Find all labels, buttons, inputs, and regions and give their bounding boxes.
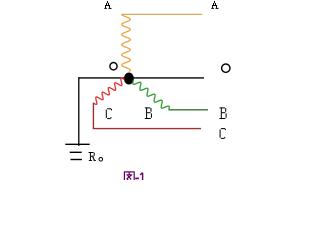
- caption 图-1: [124, 172, 142, 183]
- label C left: [106, 108, 112, 119]
- label B right: [220, 107, 227, 119]
- terminal circle left: [110, 62, 117, 69]
- red vertical wire: [92, 103, 94, 129]
- wire A-phase (orange, top): [122, 13, 202, 15]
- phase label A left: [104, 1, 111, 9]
- ground bar 2: [70, 151, 82, 153]
- bus wire (black horizontal): [78, 77, 204, 79]
- ground bar 1: [65, 143, 89, 145]
- label C right: [220, 128, 226, 139]
- coil winding B (green): [133, 80, 170, 110]
- coil winding A (orange): [122, 14, 131, 71]
- label B left: [145, 107, 152, 119]
- ground bar 3: [71, 159, 83, 161]
- red bottom wire (phase C): [93, 128, 201, 130]
- green wire (phase B): [169, 109, 209, 111]
- node junction (neutral point): [124, 73, 134, 85]
- phase label A right: [211, 1, 218, 9]
- left vertical wire to ground: [78, 77, 80, 146]
- R terminal small circle: [99, 158, 103, 162]
- terminal circle right: [222, 64, 230, 72]
- label R: [89, 152, 96, 161]
- coil winding C (red): [93, 78, 124, 104]
